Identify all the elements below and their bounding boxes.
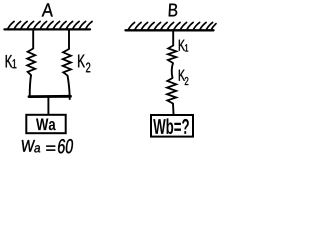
spring K1 (system A) [27, 49, 35, 76]
label Wa [36, 119, 56, 131]
ceiling A line [5, 28, 91, 30]
spring K2 (system A) [63, 49, 71, 75]
mass box Wb [151, 115, 193, 137]
wire: rod spring K1 to bar [30, 75, 31, 96]
spring K2 (system B) [167, 78, 176, 104]
equation Wa = 60 [22, 139, 73, 153]
wire: stub from bar to weight Wa [47, 97, 49, 115]
label K2 (system A) [78, 55, 90, 73]
ceiling B hatching [129, 22, 217, 29]
mass box Wa [26, 115, 65, 133]
label K1 (system B) [179, 40, 188, 52]
label K1 (system A) [6, 55, 17, 68]
label B [169, 4, 177, 17]
label K2 (system B) [179, 70, 188, 85]
ceiling A hatching [8, 21, 92, 28]
spring K1 (system B) [168, 46, 176, 64]
wire: bottom bar (system A) [29, 95, 71, 98]
wire: rod between springs (system B) [172, 63, 173, 78]
wire: rod ceiling A to spring K1 [32, 30, 34, 49]
wire: rod spring K2 to weight Wb [172, 104, 175, 115]
wire: rod ceiling B to spring K1 [172, 31, 174, 46]
label Wb=? [153, 118, 189, 134]
ceiling B line [126, 29, 214, 31]
wire: rod spring K2 to bar [68, 75, 70, 100]
label A [42, 3, 53, 16]
wire: rod ceiling A to spring K2 [68, 30, 70, 49]
